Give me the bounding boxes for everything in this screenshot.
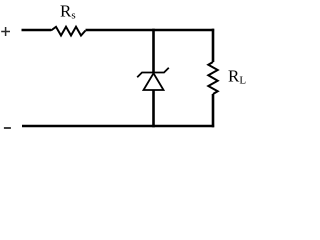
svg-text:Rs: Rs (60, 2, 76, 22)
svg-text:RL: RL (228, 67, 246, 87)
